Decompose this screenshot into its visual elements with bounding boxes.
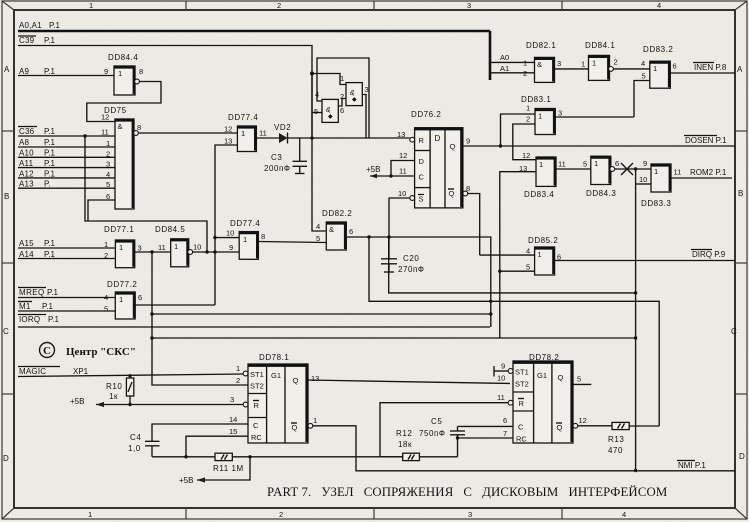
gate DD85.2 — [526, 236, 561, 275]
svg-text:DD84.3: DD84.3 — [586, 189, 616, 198]
power +5B to R10 and DD78.1 R pin — [70, 397, 243, 407]
wire DD83.4 pin13 from corridor — [500, 172, 536, 338]
svg-text:1: 1 — [241, 129, 245, 138]
svg-text:Q: Q — [292, 423, 298, 432]
svg-text:1: 1 — [526, 104, 530, 113]
svg-text:&: & — [118, 122, 123, 131]
svg-text:IORQ: IORQ — [19, 315, 40, 324]
inverter DD84.1 — [581, 41, 618, 80]
svg-text:3: 3 — [558, 109, 562, 118]
svg-text:4: 4 — [316, 222, 320, 231]
inverter DD84.3 — [583, 156, 619, 198]
svg-text:DD83.2: DD83.2 — [643, 45, 673, 54]
wire Q2 pin6 to Q1 pin2 — [338, 99, 346, 107]
svg-text:10: 10 — [226, 229, 234, 238]
wire IORQ long run — [18, 326, 490, 328]
wire DD75 pin 6 jog — [88, 200, 115, 221]
svg-text:A1: A1 — [500, 64, 509, 73]
gate DD82.2 — [316, 209, 353, 250]
svg-text:1: 1 — [592, 59, 596, 68]
svg-text:G1: G1 — [271, 371, 281, 380]
svg-text:PART 7. УЗЕЛ СОПРЯЖЕНИЯ: PART 7. УЗЕЛ СОПРЯЖЕНИЯ С ДИСКОВЫМ ИНТЕР… — [267, 485, 667, 499]
svg-text:3: 3 — [557, 59, 561, 68]
gate DD77.1 — [104, 225, 142, 268]
svg-text:DD85.2: DD85.2 — [528, 236, 558, 245]
wire DD78.2 ST1 stub — [494, 366, 508, 377]
svg-text:ST2: ST2 — [515, 380, 529, 389]
svg-text:DD76.2: DD76.2 — [411, 110, 441, 119]
svg-text:2: 2 — [614, 58, 618, 67]
svg-text:&: & — [537, 60, 542, 69]
capacitor C5 — [419, 417, 465, 438]
wire A10 to DD75 pin 2 — [18, 156, 115, 158]
svg-text:C: C — [253, 421, 259, 430]
svg-text:11: 11 — [158, 243, 166, 252]
svg-text:◆: ◆ — [328, 114, 333, 120]
svg-text:2: 2 — [106, 149, 110, 158]
flip-flop DD76.2 — [397, 110, 470, 208]
node A8 label — [19, 138, 56, 147]
svg-text:R: R — [419, 136, 425, 145]
svg-text:5: 5 — [583, 160, 587, 169]
svg-text:R13: R13 — [608, 435, 624, 444]
svg-text:DD82.1: DD82.1 — [526, 41, 556, 50]
svg-text:270пФ: 270пФ — [398, 265, 425, 274]
node M1 label — [18, 302, 54, 312]
wire DD78.2 Q out stub — [573, 383, 592, 385]
svg-text:P.1: P.1 — [44, 149, 56, 158]
svg-text:P.1: P.1 — [42, 302, 54, 311]
gate DD77.2 — [104, 280, 142, 319]
node DIRQ label — [691, 250, 726, 260]
wire MAGIC to DD78.1 pin 1 — [18, 374, 244, 377]
svg-text:9: 9 — [466, 137, 470, 146]
wire DD82.2 out — [346, 235, 491, 327]
svg-text:3: 3 — [467, 1, 471, 10]
svg-text:6: 6 — [138, 293, 142, 302]
wire DD78.1 RC pin down — [186, 436, 248, 457]
svg-text:MREQ: MREQ — [19, 288, 45, 297]
wire DD78.2 R pin from R12 node — [380, 403, 508, 457]
svg-text:1: 1 — [539, 160, 543, 169]
transistor Q2 — [314, 90, 344, 122]
gate DD83.3 — [639, 159, 681, 208]
gate DD83.4 — [519, 151, 566, 199]
svg-text:P.1: P.1 — [44, 250, 56, 259]
svg-text:7: 7 — [503, 429, 507, 438]
node A0,A1 bus label — [19, 21, 61, 30]
svg-text:D: D — [3, 454, 9, 463]
svg-text:3: 3 — [230, 395, 234, 404]
svg-text:A13: A13 — [19, 180, 34, 189]
svg-text:1: 1 — [88, 510, 92, 519]
svg-text:200пФ: 200пФ — [264, 164, 291, 173]
svg-text:11: 11 — [497, 393, 505, 402]
svg-text:6: 6 — [340, 106, 344, 115]
wire DD83.4 out to DD84.3 — [556, 168, 591, 170]
capacitor C4 — [128, 424, 248, 457]
svg-text:P.1: P.1 — [44, 36, 56, 45]
one-shot DD78.2 — [497, 353, 587, 444]
svg-text:2: 2 — [523, 69, 527, 78]
wire C39 net down to DD82.2 pin 4 — [312, 138, 326, 231]
svg-text:A14: A14 — [19, 250, 34, 259]
svg-text:C36: C36 — [19, 127, 35, 136]
node ROM2 label — [690, 168, 727, 177]
svg-text:G1: G1 — [537, 371, 547, 380]
wire DD85.2 out DIRQ — [555, 260, 735, 262]
wire DD84.3 out with X mark — [615, 163, 651, 175]
svg-text:12: 12 — [522, 151, 530, 160]
svg-text:P.1: P.1 — [44, 169, 56, 178]
resistor R10 — [106, 376, 134, 405]
svg-text:C4: C4 — [130, 433, 141, 442]
inverter DD84.4 — [104, 53, 143, 95]
wire DD85.2 pin4 from mid lines — [150, 255, 534, 316]
transistor Q1 — [340, 74, 369, 106]
node MAGIC XP1 label — [18, 367, 89, 377]
svg-text:11: 11 — [259, 129, 267, 138]
svg-text:4: 4 — [526, 247, 530, 256]
copyright text — [66, 346, 136, 358]
svg-text:ST1: ST1 — [250, 370, 264, 379]
svg-text:Q: Q — [558, 373, 564, 382]
svg-text:3: 3 — [106, 160, 110, 169]
wire Q1 pin3 down — [362, 95, 366, 139]
svg-text:6: 6 — [503, 416, 507, 425]
svg-text:14: 14 — [229, 415, 237, 424]
svg-text:P.1: P.1 — [44, 239, 56, 248]
wire DD77.1 out to DD84.5 — [135, 250, 171, 253]
svg-text:VD2: VD2 — [274, 123, 291, 132]
inverter DD84.5 — [155, 225, 201, 267]
junction C39 vertical on VD2 wire — [310, 72, 314, 140]
wire transistor loop — [317, 58, 369, 138]
svg-text:ROM2 P.1: ROM2 P.1 — [690, 168, 727, 177]
svg-text:INEN P.8: INEN P.8 — [694, 63, 727, 72]
svg-text:P.1: P.1 — [49, 21, 61, 30]
svg-text:P.1: P.1 — [44, 67, 56, 76]
node A14 label — [19, 250, 56, 259]
svg-text:P.1: P.1 — [48, 315, 60, 324]
svg-text:3: 3 — [138, 244, 142, 253]
svg-text:4: 4 — [104, 293, 108, 302]
wire bus stubs to DD82.1 — [490, 62, 535, 72]
svg-text:1: 1 — [118, 69, 122, 78]
power +5B to DD76.2 — [366, 161, 415, 179]
node NMI label — [677, 461, 706, 471]
wire DD84.4 out to DD75 pin 12 — [87, 82, 161, 122]
svg-text:A: A — [4, 65, 10, 74]
svg-text:5: 5 — [642, 72, 646, 81]
svg-text:RC: RC — [251, 433, 262, 442]
svg-text:D: D — [419, 157, 425, 166]
svg-text:DD84.4: DD84.4 — [108, 53, 138, 62]
wire DD84.5 out to DD77.4b pin9 — [193, 251, 240, 253]
one-shot DD78.1 — [229, 353, 319, 443]
svg-text:P.1: P.1 — [44, 127, 56, 136]
svg-text:1: 1 — [119, 243, 123, 252]
svg-text:1,0: 1,0 — [128, 444, 141, 453]
svg-text:9: 9 — [643, 159, 647, 168]
svg-text:R12: R12 — [396, 429, 412, 438]
svg-text:DD77.4: DD77.4 — [228, 113, 258, 122]
svg-text:3: 3 — [468, 510, 472, 519]
svg-text:1: 1 — [594, 159, 598, 168]
svg-text:&: & — [329, 225, 334, 234]
svg-text:R11 1M: R11 1M — [213, 464, 244, 473]
svg-text:P.: P. — [44, 180, 51, 189]
svg-text:12: 12 — [579, 416, 587, 425]
svg-text:4: 4 — [622, 510, 626, 519]
frame zone ticks right — [735, 131, 747, 394]
svg-text:DD77.2: DD77.2 — [107, 280, 137, 289]
svg-text:9: 9 — [501, 362, 505, 371]
svg-text:1: 1 — [104, 240, 108, 249]
svg-text:1: 1 — [313, 416, 317, 425]
svg-text:10: 10 — [497, 374, 505, 383]
gate DD83.2 — [641, 45, 677, 88]
svg-text:9: 9 — [104, 67, 108, 76]
frame zone ticks top — [186, 1, 562, 10]
svg-text:5: 5 — [577, 375, 581, 384]
wire DD83.1 pin2 to DD83.4 pin12 — [513, 124, 536, 160]
svg-text:8: 8 — [466, 184, 470, 193]
resistor R11 — [213, 453, 244, 473]
svg-text:C20: C20 — [403, 254, 419, 263]
svg-text:A0,A1: A0,A1 — [19, 21, 42, 30]
svg-text:M1: M1 — [19, 302, 31, 311]
wire DD83.2 pin5 from DD83.1 out — [634, 81, 650, 118]
node A13 label — [19, 180, 51, 189]
wire DD84.1 out — [613, 68, 649, 70]
node INEN label — [693, 63, 727, 73]
svg-text:1: 1 — [581, 60, 585, 69]
svg-text:11: 11 — [399, 167, 407, 176]
svg-text:11: 11 — [558, 160, 566, 169]
svg-text:11: 11 — [101, 128, 109, 137]
svg-text:DOSEN P.1: DOSEN P.1 — [685, 136, 727, 145]
svg-text:C: C — [3, 327, 9, 336]
svg-text:ST2: ST2 — [250, 382, 264, 391]
wire C39 branch to Q1 pin1 — [312, 74, 346, 85]
svg-text:RC: RC — [516, 435, 527, 444]
wire RC node line — [152, 455, 403, 458]
svg-text:12: 12 — [399, 151, 407, 160]
svg-text:1: 1 — [106, 139, 110, 148]
svg-text:Центр "СКС": Центр "СКС" — [66, 346, 136, 358]
svg-text:MAGIC: MAGIC — [19, 367, 46, 376]
resistor R13 — [608, 422, 629, 455]
svg-text:1: 1 — [653, 64, 657, 73]
svg-text:2: 2 — [236, 376, 240, 385]
svg-text:C: C — [731, 327, 737, 336]
svg-text:A0: A0 — [500, 53, 509, 62]
wire A11 to DD75 pin 3 — [18, 167, 115, 169]
svg-text:NMI P.1: NMI P.1 — [678, 461, 706, 470]
wire C36 branch down — [83, 134, 208, 253]
svg-text:DD82.2: DD82.2 — [322, 209, 352, 218]
node DOSEN label — [684, 136, 727, 146]
gate DD75 — [101, 106, 141, 209]
svg-text:15: 15 — [229, 427, 237, 436]
svg-text:C39: C39 — [19, 36, 35, 45]
capacitor C3 — [264, 138, 307, 174]
gate DD77.4 second — [226, 219, 265, 259]
svg-text:DD78.1: DD78.1 — [259, 353, 289, 362]
svg-text:D: D — [739, 452, 745, 461]
node C39 label — [18, 36, 56, 45]
svg-text:1: 1 — [119, 295, 123, 304]
wire A15 to DD77.1 pin 1 — [18, 247, 115, 249]
svg-text:P.1: P.1 — [44, 138, 56, 147]
svg-text:8: 8 — [137, 123, 141, 132]
gate DD77.4 first — [224, 113, 267, 152]
svg-text:8: 8 — [261, 232, 265, 241]
wire DD85.2 pin5 from corridor — [498, 270, 535, 273]
node A11 label — [19, 159, 56, 168]
wire A13 to DD75 pin 5 — [18, 187, 115, 189]
svg-text:13: 13 — [397, 130, 405, 139]
wire DD78.2 C pin to C5 — [458, 425, 514, 427]
svg-text:DIRQ P.9: DIRQ P.9 — [692, 250, 726, 259]
svg-text:Q: Q — [557, 423, 563, 432]
wire DD77.2 out up to pin13 net — [135, 304, 215, 306]
node A9 label — [19, 67, 56, 76]
svg-text:1: 1 — [538, 250, 542, 259]
svg-text:11: 11 — [674, 168, 682, 177]
svg-text:10: 10 — [398, 189, 406, 198]
svg-text:A12: A12 — [19, 169, 34, 178]
svg-text:A10: A10 — [19, 149, 34, 158]
wire DD78.2 Qbar to R13 — [578, 425, 612, 427]
wire DD78.1 Q out to DD78.2 ST2 — [308, 380, 510, 384]
wire C36 to DD75 pin 11 — [18, 135, 115, 137]
svg-text:ST1: ST1 — [515, 368, 529, 377]
wire DD76.2 Qbar down — [468, 194, 480, 256]
title text — [267, 485, 667, 499]
svg-text:A11: A11 — [19, 159, 34, 168]
svg-text:4: 4 — [641, 59, 645, 68]
svg-text:Q: Q — [449, 189, 455, 198]
svg-text:B: B — [738, 189, 743, 198]
svg-text:2: 2 — [104, 251, 108, 260]
svg-text:13: 13 — [311, 374, 319, 383]
wire DD78.1 Qbar out down to NMI run — [313, 426, 735, 471]
node A10 label — [19, 149, 56, 158]
wire DD78.2 RC pin to C5 bottom — [458, 437, 514, 439]
wire M1 to DD77.2 pin 5 — [18, 310, 115, 312]
wire Q2 pin5 — [312, 74, 322, 139]
svg-text:5: 5 — [316, 234, 320, 243]
svg-text:18к: 18к — [398, 440, 412, 449]
svg-text:C: C — [518, 423, 524, 432]
svg-text:750пФ: 750пФ — [419, 429, 446, 438]
svg-text:S: S — [419, 195, 424, 204]
wire A0,A1 bus — [18, 31, 490, 80]
svg-text:Q: Q — [293, 376, 299, 385]
svg-text:6: 6 — [673, 62, 677, 71]
svg-text:2: 2 — [277, 1, 281, 10]
svg-text:1: 1 — [654, 167, 658, 176]
svg-text:R10: R10 — [106, 382, 122, 391]
wire DD77.1 out branch down to DD78.1 pin2 — [152, 252, 248, 385]
wire DD77.4b out to DD82.2 pin5 — [258, 242, 326, 243]
svg-text:R: R — [519, 399, 525, 408]
wire DD83.2 out INEN — [670, 72, 735, 74]
wire mid run y338 — [150, 336, 637, 339]
svg-text:R: R — [254, 401, 260, 410]
svg-text:Q: Q — [450, 142, 456, 151]
svg-text:12: 12 — [101, 113, 109, 122]
gate DD82.1 — [500, 41, 561, 82]
svg-text:D: D — [435, 134, 441, 143]
svg-text:DD77.4: DD77.4 — [230, 219, 260, 228]
wire DD76.2 S input — [389, 198, 410, 237]
svg-text:+5B: +5B — [366, 165, 380, 174]
svg-text:C5: C5 — [431, 417, 442, 426]
node C36 label — [18, 127, 56, 137]
svg-text:1: 1 — [236, 364, 240, 373]
svg-text:8: 8 — [139, 67, 143, 76]
svg-text:A9: A9 — [19, 67, 30, 76]
wire A8 to DD75 pin 1 — [18, 146, 115, 148]
svg-text:P.1: P.1 — [47, 288, 59, 297]
svg-text:DD77.1: DD77.1 — [104, 225, 134, 234]
svg-text:470: 470 — [608, 446, 623, 455]
copyright logo — [40, 343, 55, 358]
svg-text:1: 1 — [340, 74, 344, 83]
svg-text:C3: C3 — [271, 153, 282, 162]
svg-text:2: 2 — [279, 510, 283, 519]
svg-text:+5B: +5B — [179, 476, 193, 485]
svg-text:1: 1 — [89, 1, 93, 10]
wire DD77.4a pin13 to DD77.4b pin10 — [213, 145, 239, 305]
wire mid run y301 to R13 vertical — [369, 237, 659, 426]
wire MREQ to DD77.2 pin 4 — [18, 297, 115, 299]
svg-text:1: 1 — [174, 242, 178, 251]
wire A14 to DD77.1 pin 2 — [18, 258, 115, 260]
wire DD83.1 out to DD83.2 pin5 — [555, 116, 634, 118]
svg-text:1к: 1к — [109, 392, 118, 401]
svg-text:DD83.4: DD83.4 — [524, 190, 554, 199]
resistor R12 — [396, 429, 419, 461]
wire R12 right up to C5 / RC node — [419, 436, 459, 457]
svg-text:13: 13 — [224, 137, 232, 146]
node IORQ label — [18, 315, 60, 325]
svg-text:DD84.5: DD84.5 — [155, 225, 185, 234]
svg-text:12: 12 — [224, 125, 232, 134]
svg-text:A: A — [737, 65, 743, 74]
wire DD82.1 out — [555, 68, 589, 70]
frame zone ticks left — [2, 131, 14, 394]
svg-text:C: C — [43, 345, 51, 357]
svg-text:B: B — [4, 192, 9, 201]
node MREQ label — [18, 288, 59, 298]
svg-text:10: 10 — [193, 243, 201, 252]
capacitor C20 — [381, 237, 425, 274]
svg-text:A8: A8 — [19, 138, 30, 147]
svg-text:9: 9 — [229, 243, 233, 252]
wire mid run y293 — [389, 237, 638, 295]
svg-text:1: 1 — [538, 112, 542, 121]
svg-text:10: 10 — [639, 175, 647, 184]
svg-text:A15: A15 — [19, 239, 34, 248]
svg-text:4: 4 — [106, 170, 110, 179]
svg-text:4: 4 — [657, 1, 661, 10]
svg-text:2: 2 — [526, 115, 530, 124]
wire DD75 out to DD77.4a pin 12 — [139, 132, 238, 134]
